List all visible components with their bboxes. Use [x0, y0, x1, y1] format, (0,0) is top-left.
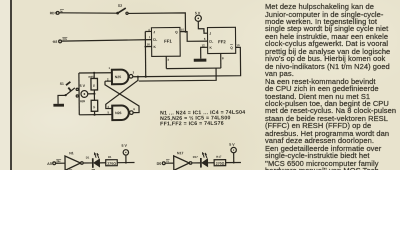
wire S1 pole to ground — [58, 95, 66, 103]
wire phi2 to FF1 CL — [61, 40, 151, 41]
wire D0 to N17 — [165, 162, 174, 164]
svg-text:FF1: FF1 — [164, 39, 172, 44]
nand N25 — [112, 70, 133, 85]
resistor R17 — [214, 155, 226, 166]
svg-text:10: 10 — [236, 43, 240, 47]
svg-text:Q: Q — [230, 46, 233, 50]
node junction J-K at K stub — [144, 46, 146, 48]
wire R25 top stub — [93, 73, 95, 79]
switch S1 — [60, 82, 79, 98]
svg-text:Φ2: Φ2 — [53, 40, 58, 44]
node RDY terminal — [50, 11, 59, 15]
node junction at N25 output line — [145, 75, 147, 77]
supply 5V (A0 row) — [121, 144, 128, 155]
svg-text:R26: R26 — [80, 99, 86, 103]
svg-text:6: 6 — [204, 37, 206, 41]
svg-text:N26: N26 — [115, 111, 122, 115]
wire 5V stem to resistor mid node — [88, 93, 95, 95]
svg-text:5: 5 — [107, 110, 109, 114]
led D1 — [86, 153, 100, 168]
node junction R25 top rail — [93, 72, 95, 74]
wire RDY to S2 — [59, 12, 117, 13]
wire N25 input B stub — [105, 80, 112, 82]
RDY connector pin label 5c — [60, 9, 64, 13]
switch S2 — [116, 4, 128, 15]
phi2 connector pin label 27b — [62, 37, 67, 41]
flip-flop FF1 — [151, 27, 180, 56]
wire N25 input A from top rail — [79, 72, 112, 74]
wire up to 5V — [125, 155, 127, 162]
inverter N17 — [174, 151, 192, 170]
svg-text:R25: R25 — [88, 75, 94, 79]
svg-text:1k: 1k — [92, 106, 95, 109]
svg-text:N25: N25 — [115, 75, 122, 79]
svg-text:3: 3 — [167, 58, 169, 62]
svg-text:N1: N1 — [69, 151, 74, 155]
svg-text:5 V: 5 V — [121, 144, 127, 148]
svg-text:3: 3 — [133, 70, 135, 74]
wire FF1 J stub — [145, 30, 151, 32]
svg-text:15: 15 — [181, 28, 185, 32]
wire FF1 clear stub down — [165, 56, 167, 68]
svg-text:D1: D1 — [86, 155, 90, 159]
svg-text:J: J — [153, 30, 155, 34]
IC key text block — [160, 110, 245, 128]
wire N25 output line — [133, 76, 146, 78]
svg-text:270Ω: 270Ω — [107, 162, 116, 166]
wire D1 to R1 — [100, 162, 106, 164]
wire FF1 K stub — [145, 46, 151, 48]
wire R26 top stub — [93, 94, 95, 100]
node junction at 5V drop (D0 row) — [233, 162, 235, 164]
D0 connector pin label 7c — [166, 159, 170, 163]
wire cross-couple N25 out to N26 input A — [106, 77, 139, 109]
svg-text:K: K — [209, 46, 212, 50]
resistor R1 — [106, 155, 118, 166]
wire N1 to D1 — [83, 162, 92, 164]
wire D17 to R17 — [208, 162, 214, 164]
svg-text:9: 9 — [203, 29, 205, 33]
A0 connector pin label 26c — [56, 159, 61, 163]
svg-text:1: 1 — [149, 35, 151, 39]
svg-text:CL: CL — [153, 38, 157, 42]
svg-text:5 V: 5 V — [229, 143, 235, 147]
nand N26 — [112, 105, 133, 120]
wire FF2 K stub to ground — [201, 47, 208, 58]
node phi2 terminal — [53, 40, 62, 44]
wire R17 to 5V node — [226, 161, 241, 163]
svg-text:5 V: 5 V — [80, 84, 86, 88]
wire 5V to FF2 J — [198, 21, 207, 33]
D1 cut-off pin text at page edge — [92, 169, 95, 170]
resistor R25 — [88, 75, 97, 90]
node junction N25 out to N26 branch — [137, 76, 139, 78]
node junction resistor mid — [93, 93, 95, 95]
svg-text:1k: 1k — [92, 84, 95, 87]
svg-text:16: 16 — [147, 42, 151, 46]
svg-text:A0: A0 — [47, 162, 52, 166]
ground (FF2 K) — [194, 59, 207, 62]
wire cross-couple N26 out to N25 input B — [105, 81, 139, 113]
supply 5V (D0 row) — [229, 143, 236, 153]
svg-text:6: 6 — [133, 107, 135, 111]
node D0 terminal — [157, 162, 166, 166]
svg-text:S1: S1 — [60, 82, 64, 86]
wire S2 to FF1 Q node — [128, 13, 185, 32]
svg-text:CL: CL — [209, 40, 213, 44]
svg-text:1: 1 — [108, 66, 110, 70]
node junction at FF1 Q — [184, 30, 186, 32]
led D17 — [193, 152, 208, 167]
svg-text:J: J — [209, 32, 211, 36]
svg-text:K: K — [153, 45, 156, 49]
resistor R26 — [80, 99, 98, 111]
wire R1 to 5V node — [117, 162, 134, 164]
svg-text:FF1,FF2 = IC6 = 74LS76: FF1,FF2 = IC6 = 74LS76 — [160, 121, 224, 128]
wire FF1 Q to FF2 CL — [180, 31, 208, 41]
wire FF2 Qbar to N25 output line — [145, 47, 240, 76]
supply 5V (latch) — [80, 84, 88, 97]
wire clear tie FF1-FF2 — [166, 67, 220, 70]
wire A0 to N1 — [56, 162, 65, 164]
node junction R26 bottom rail — [93, 114, 95, 116]
wire R25 bottom to 5V node — [93, 90, 95, 94]
wire FF2 clear stub down — [220, 53, 222, 68]
svg-text:S2: S2 — [118, 4, 122, 8]
flip-flop FF2 — [207, 27, 235, 53]
ground (S1) — [53, 104, 64, 107]
svg-text:N17: N17 — [177, 151, 184, 155]
svg-text:8: 8 — [222, 56, 224, 60]
svg-text:R1: R1 — [108, 155, 112, 159]
svg-text:270Ω: 270Ω — [216, 162, 225, 166]
node junction at 5V drop — [125, 162, 127, 164]
svg-text:Q: Q — [175, 30, 178, 34]
wire S1 contact rail — [78, 73, 80, 115]
svg-text:D17: D17 — [193, 155, 199, 159]
node A0 terminal — [47, 162, 55, 166]
N1 cut-off pin text at page edge — [69, 170, 72, 171]
svg-text:FF2: FF2 — [218, 39, 226, 44]
wire N17 to D17 — [192, 162, 200, 164]
wire up to 5V (D0 row) — [233, 153, 235, 163]
page rule — [10, 0, 12, 170]
wire N26 output to clear tie — [139, 68, 217, 81]
supply 5V (between FF1 and FF2) — [195, 11, 201, 21]
inverter N1 — [65, 151, 83, 170]
wire N26 input B from bottom rail — [79, 114, 112, 116]
svg-text:D0: D0 — [157, 162, 162, 166]
wire R26 bottom stub to rail — [94, 111, 96, 114]
wire FF1 J-K tie down to N25 output line — [144, 31, 146, 76]
svg-text:R17: R17 — [216, 155, 222, 159]
